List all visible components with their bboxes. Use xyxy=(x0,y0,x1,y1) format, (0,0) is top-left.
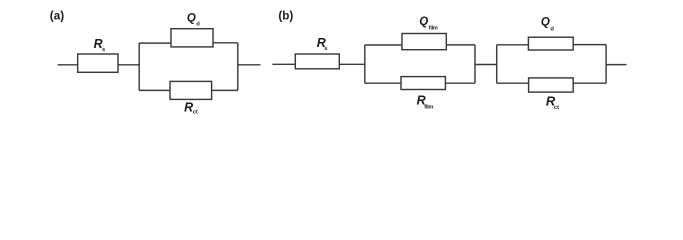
svg-text:s: s xyxy=(324,46,327,52)
wire output lead (b) xyxy=(606,64,626,66)
wire input lead (b) xyxy=(272,63,295,65)
wire film top-right stub (b) xyxy=(446,44,475,46)
wire top-right stub (a) xyxy=(213,42,238,44)
wire dl bottom-right stub (b) xyxy=(573,82,606,84)
wire dl top-right stub (b) xyxy=(573,44,606,46)
wire output lead (a) xyxy=(238,64,261,66)
svg-text:(b): (b) xyxy=(278,10,293,23)
wire Rs to left rail (a) xyxy=(118,64,140,66)
node left rail (a) xyxy=(138,43,140,90)
resistor Rfilm (b) box xyxy=(401,77,445,90)
capacitor CPE Qd (a) box xyxy=(171,29,213,47)
resistor Rs (b) box xyxy=(295,54,339,69)
node right rail (a) xyxy=(237,43,239,91)
svg-text:ct: ct xyxy=(554,105,559,111)
svg-text:Q: Q xyxy=(187,13,196,25)
wire input lead (a) xyxy=(58,64,78,66)
svg-text:Q: Q xyxy=(419,16,428,28)
wire middle link (b) xyxy=(475,64,497,66)
wire top-left stub (a) xyxy=(139,42,171,44)
svg-text:d: d xyxy=(550,26,554,32)
wire dl top-left stub (b) xyxy=(497,44,529,46)
svg-text:ct: ct xyxy=(193,110,198,116)
resistor Rct (a) box xyxy=(170,81,212,99)
wire dl bottom-left stub (b) xyxy=(497,82,529,84)
svg-text:s: s xyxy=(102,47,105,53)
capacitor CPE Qfilm (b) box xyxy=(402,34,446,50)
wire film top-left stub (b) xyxy=(365,44,402,46)
svg-text:d: d xyxy=(196,22,200,28)
node dl right rail (b) xyxy=(605,45,607,84)
capacitor CPE Qd (b) box xyxy=(528,37,573,50)
svg-text:(a): (a) xyxy=(50,10,64,23)
wire Rs to film rail (b) xyxy=(339,63,365,65)
node film right rail (b) xyxy=(474,45,476,83)
wire bottom-left stub (a) xyxy=(139,89,170,91)
wire film bottom-left stub (b) xyxy=(365,82,401,84)
wire bottom-right stub (a) xyxy=(212,89,238,91)
svg-text:film: film xyxy=(424,105,433,111)
node film left rail (b) xyxy=(364,45,366,83)
resistor Rct (b) box xyxy=(529,78,574,92)
node dl left rail (b) xyxy=(496,45,498,83)
resistor Rs (a) box xyxy=(78,54,118,72)
wire film bottom-right stub (b) xyxy=(445,82,475,84)
svg-text:film: film xyxy=(429,25,438,31)
svg-text:Q: Q xyxy=(541,17,550,29)
